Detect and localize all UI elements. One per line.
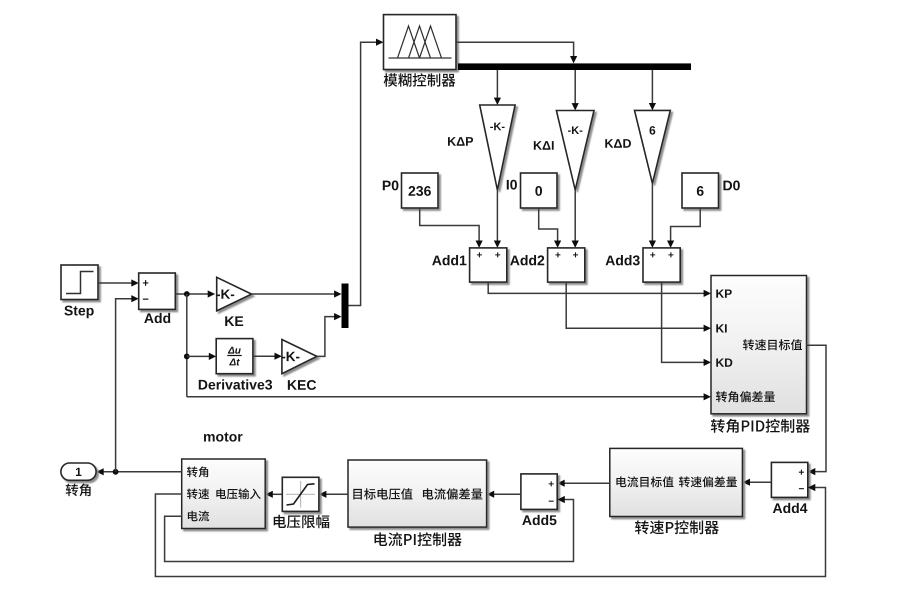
block Step	[61, 265, 98, 318]
wire current PI to saturation	[319, 491, 348, 498]
wire Add output	[175, 290, 215, 297]
wire speed feedback	[155, 484, 825, 577]
gain KdP	[448, 105, 515, 190]
sum Add	[139, 273, 176, 323]
wire KE to Mux	[252, 290, 342, 297]
wire Step to Add	[98, 279, 139, 286]
wire speed P to Add5	[557, 480, 610, 487]
wire Demux to gain KdP	[494, 70, 501, 105]
wire to Derivative3	[187, 353, 216, 360]
gain KEC	[282, 340, 317, 390]
wire gain KdD to Add3	[649, 183, 656, 248]
wire gain KdI to Add2	[572, 190, 579, 248]
subsystem motor	[182, 432, 266, 528]
wire Add3 to KD	[662, 282, 711, 366]
derivative Derivative3	[199, 339, 272, 390]
outport 1	[61, 463, 96, 496]
wire Derivative3 to KEC	[253, 353, 282, 360]
wire Add1 to KP	[488, 282, 711, 297]
wire Mux to fuzzy controller	[349, 39, 384, 306]
wire saturation to motor	[265, 491, 282, 498]
wire error to PID	[187, 393, 711, 400]
wire current feedback	[165, 496, 574, 562]
wire angle feedback	[116, 295, 139, 472]
wire Add2 to KI	[566, 282, 711, 332]
mux	[342, 284, 349, 329]
wire fuzzy controller to Demux	[456, 42, 577, 63]
wire Demux to gain KdD	[649, 70, 656, 110]
wire gain KdP to Add1	[494, 190, 501, 248]
subsystem speed P controller	[610, 448, 743, 534]
constant P0	[383, 173, 438, 208]
wire Add5 to current PI controller	[487, 491, 521, 498]
gain KE	[217, 277, 252, 326]
wire P0 to Add1	[420, 208, 483, 248]
demux	[458, 63, 691, 70]
constant I0	[507, 173, 557, 208]
wire KEC to Mux	[317, 313, 342, 356]
sum Add2	[510, 248, 585, 282]
fuzzy controller block	[384, 15, 457, 87]
wire D0 to Add3	[667, 208, 700, 248]
subsystem PID controller	[711, 276, 810, 433]
sum Add4	[771, 462, 807, 513]
wire motor angle output	[96, 468, 181, 475]
sum Add1	[432, 248, 507, 282]
wire Demux to gain KdI	[572, 70, 579, 111]
wire error branch down	[184, 294, 190, 397]
constant D0	[682, 173, 740, 208]
gain KdI	[534, 111, 594, 191]
wire PID to Add4	[807, 345, 827, 475]
wire I0 to Add2	[539, 208, 562, 248]
sum Add3	[606, 248, 681, 282]
gain KdD	[605, 110, 670, 183]
sum Add5	[521, 474, 557, 525]
saturation block	[274, 477, 330, 528]
wire Add4 to speed P controller	[743, 479, 772, 486]
subsystem current PI controller	[348, 460, 487, 546]
